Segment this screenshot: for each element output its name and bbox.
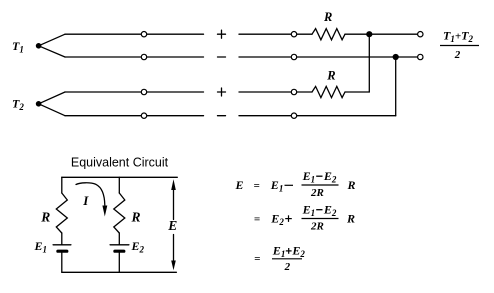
battery E2 short plate	[115, 250, 124, 253]
equation 2 plus	[285, 215, 292, 222]
equation 2 fraction bar	[302, 218, 339, 220]
terminal row1 mid	[291, 32, 296, 37]
svg-text:I: I	[82, 193, 89, 208]
wire row4 segment b	[239, 115, 396, 117]
terminal row2 left	[141, 54, 146, 59]
svg-text:R: R	[346, 212, 355, 226]
wire row4 segment a	[65, 115, 204, 117]
wire T1 fan upper	[39, 34, 65, 46]
wire row3 segment b	[239, 91, 312, 93]
wire row1 segment a	[65, 33, 204, 35]
wire left branch lower	[61, 253, 63, 272]
svg-text:2: 2	[284, 261, 291, 273]
equation 1 minus	[285, 184, 294, 186]
battery E1 short plate	[58, 250, 67, 253]
wire T2 fan lower	[39, 104, 65, 116]
svg-text:E: E	[167, 218, 177, 233]
wire vertical row3 to junction 1	[368, 34, 370, 92]
svg-text:Equivalent Circuit: Equivalent Circuit	[71, 156, 169, 170]
svg-text:R: R	[131, 210, 141, 225]
wire vertical row4 to junction 2	[395, 57, 397, 116]
output fraction bar	[440, 45, 479, 47]
svg-text:R: R	[326, 69, 335, 83]
wire row2 segment a	[65, 56, 204, 58]
current arrow I head	[102, 206, 107, 217]
wire left branch upper	[61, 177, 63, 193]
terminal row4 mid	[291, 113, 296, 118]
resistor R row3	[312, 86, 345, 97]
equation 3 fraction numerator E1+E2	[272, 244, 306, 260]
wire row3 segment a	[65, 91, 204, 93]
output terminal row2	[418, 54, 423, 59]
plus sign row1	[218, 30, 226, 38]
svg-text:=: =	[254, 214, 260, 226]
wire row1 segment b	[239, 33, 312, 35]
wire row2 segment b	[239, 56, 420, 58]
svg-text:=: =	[254, 253, 260, 265]
junction dot 1	[366, 31, 372, 37]
svg-text:R: R	[323, 10, 332, 24]
battery E2 long plate	[110, 244, 129, 246]
wire row3 segment c	[345, 91, 369, 93]
equation 1 fraction numerator E1-E2	[302, 169, 337, 185]
svg-text:E: E	[235, 178, 244, 192]
terminal row2 mid	[291, 54, 296, 59]
terminal row3 mid	[291, 89, 296, 94]
svg-text:=: =	[254, 180, 260, 192]
node T2 dot	[36, 101, 42, 107]
voltage arrow E upper line	[173, 189, 175, 220]
wire row1 segment c	[345, 33, 420, 35]
svg-text:R: R	[347, 178, 356, 192]
wire left branch mid	[61, 233, 63, 245]
svg-text:2R: 2R	[310, 221, 324, 233]
wire middle branch mid	[118, 233, 120, 245]
voltage arrow E lower head	[171, 261, 176, 271]
wire middle branch lower	[118, 253, 120, 272]
battery E1 long plate	[53, 244, 71, 246]
plus sign row3	[218, 88, 226, 96]
equation 1 fraction bar	[302, 184, 339, 186]
junction dot 2	[393, 54, 399, 60]
svg-text:R: R	[40, 210, 50, 225]
terminal row4 left	[141, 113, 146, 118]
wire bottom of equivalent circuit	[62, 271, 177, 273]
minus sign row2	[218, 56, 226, 58]
minus sign row4	[218, 115, 226, 117]
svg-text:2: 2	[454, 49, 461, 61]
resistor R row1	[312, 29, 345, 40]
wire middle branch upper	[118, 177, 120, 193]
equation 3 fraction bar	[272, 258, 302, 260]
node T1 dot	[36, 43, 42, 49]
output terminal row1	[418, 32, 423, 37]
svg-text:2R: 2R	[310, 187, 324, 199]
terminal row1 left	[141, 32, 146, 37]
terminal row3 left	[141, 89, 146, 94]
voltage arrow E lower line	[173, 235, 175, 262]
wire T2 fan upper	[39, 92, 65, 104]
current arrow I curve	[76, 183, 105, 205]
resistor R middle	[114, 193, 125, 233]
voltage arrow E upper head	[171, 179, 176, 190]
wire T1 fan lower	[39, 46, 65, 57]
resistor R left	[56, 193, 67, 233]
wire top of equivalent circuit	[62, 176, 178, 178]
equation 2 fraction numerator E1-E2	[302, 203, 337, 219]
